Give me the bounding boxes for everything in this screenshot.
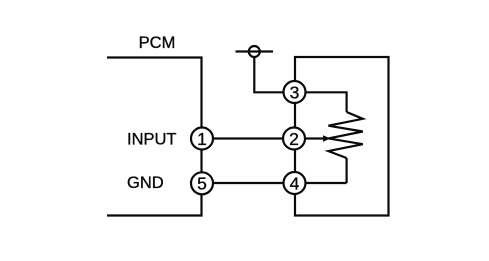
svg-text:INPUT: INPUT xyxy=(127,130,177,148)
pin 5 xyxy=(191,172,213,194)
wire GND pin5 to pin4 xyxy=(202,182,347,184)
wire pin3 to resistor top xyxy=(295,92,347,112)
wire terminal to pin3 xyxy=(254,57,294,92)
wire INPUT pin1 to pin2 xyxy=(202,137,295,139)
pin 3 xyxy=(284,81,306,103)
terminal symbol xyxy=(236,46,274,57)
wire resistor bottom to pin4 wire xyxy=(346,158,348,183)
sensor box xyxy=(295,57,389,216)
svg-text:1: 1 xyxy=(197,129,207,149)
svg-text:4: 4 xyxy=(290,173,300,193)
resistor (potentiometer element) xyxy=(328,112,362,158)
pin 2 xyxy=(283,128,305,150)
svg-text:PCM: PCM xyxy=(139,34,176,52)
pin 4 xyxy=(284,172,306,194)
svg-text:GND: GND xyxy=(127,174,164,192)
svg-text:2: 2 xyxy=(289,129,299,149)
svg-text:3: 3 xyxy=(290,82,300,102)
pin 1 xyxy=(191,128,213,150)
wiper arrow from pin2 xyxy=(295,135,331,142)
svg-text:5: 5 xyxy=(197,174,207,194)
PCM connector bracket xyxy=(107,58,202,216)
